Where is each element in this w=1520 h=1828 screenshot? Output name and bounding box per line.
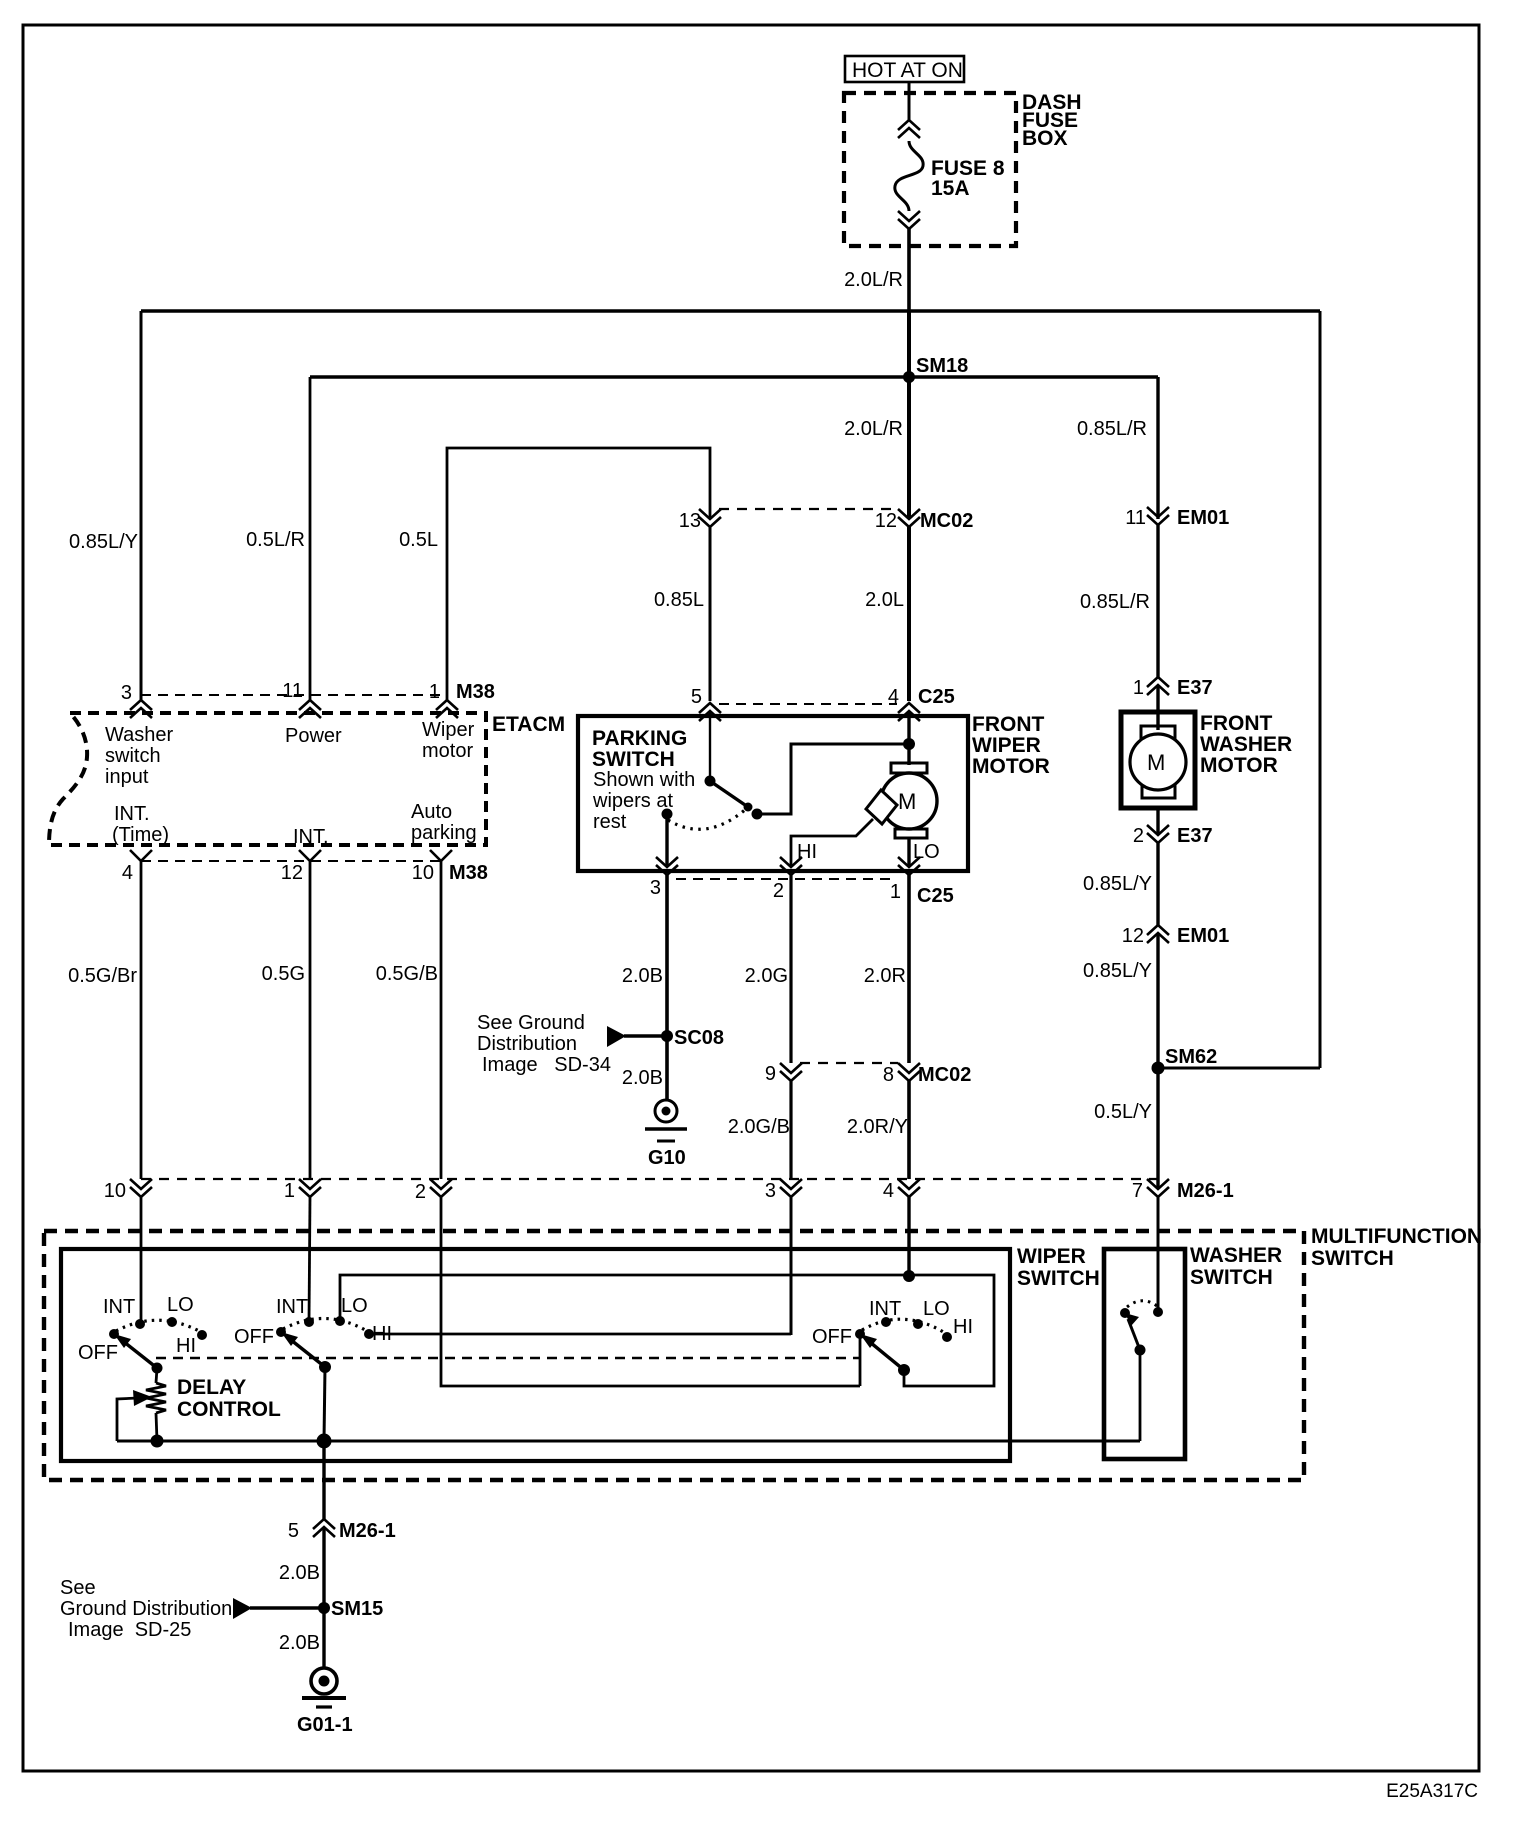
wire: 2.0G/B to switch2 HI rail [790,1197,793,1335]
wire: 2.0L to wiper motor [907,527,911,701]
node SM15 [233,1598,383,1620]
wire: parking rest contact to pin3 [665,814,668,867]
wire: 0.5L/Y into washer switch [1157,1197,1160,1312]
svg-text:0.5L/R: 0.5L/R [246,529,305,551]
svg-text:3: 3 [650,877,661,899]
see ground distribution SD-34 note [477,1012,611,1076]
svg-text:BOX: BOX [1022,127,1068,150]
svg-text:2.0B: 2.0B [279,1632,320,1654]
svg-text:INT: INT [276,1296,308,1318]
parking switch label [592,727,695,833]
svg-text:2: 2 [415,1181,426,1203]
connector M38 pin 10 [412,850,488,884]
ground G01-1 [297,1668,353,1736]
svg-text:rest: rest [593,811,627,833]
wire: HI rail [369,1333,791,1336]
wire: switch2 common to ground bus [324,1367,325,1441]
ETACM pin name: Auto parking [411,801,477,844]
svg-text:2: 2 [1133,825,1144,847]
svg-text:WIPER: WIPER [972,734,1041,757]
ETACM pin name: INT. (Time) [112,803,169,846]
svg-text:Image SD-25: Image SD-25 [68,1619,191,1641]
delay control resistor R [146,1368,166,1441]
front washer motor feed: connector E37 pin 1 [1133,677,1213,699]
wire: 0.5G/Br INT(Time) [140,861,143,1179]
wire: 2.0B to ground [322,1608,325,1668]
svg-text:2.0G: 2.0G [745,965,788,987]
svg-text:SM62: SM62 [1165,1046,1217,1068]
connector C25 pin 4 [888,686,955,721]
svg-text:E37: E37 [1177,825,1213,847]
wire: 2.0B to SM15 [322,1527,325,1608]
motor HI brush [866,790,897,824]
svg-text:Washer: Washer [105,724,174,746]
wire: 0.85L to parking switch [709,527,712,701]
connector C25 top dashed link [719,703,897,705]
wire: pin4 into motor [907,711,910,765]
washer switch blade [1125,1313,1146,1356]
parking switch travel arc (dotted) [668,809,746,829]
wire: ground lead out of multifunction switch [322,1441,325,1519]
svg-text:input: input [105,766,149,788]
svg-text:Shown with: Shown with [593,769,695,791]
connector M26-1 pin 3 [765,1179,802,1202]
wire: ground bus [117,1440,1140,1443]
switch3 travel arc (dotted) [862,1319,945,1333]
svg-text:13: 13 [679,510,701,532]
svg-text:2.0B: 2.0B [279,1562,320,1584]
svg-text:3: 3 [765,1180,776,1202]
svg-text:M: M [1147,750,1165,775]
svg-text:5: 5 [691,686,702,708]
svg-text:G01-1: G01-1 [297,1714,353,1736]
node: resistor to bus [151,1435,164,1448]
connector MC02 pin 12 [875,509,974,532]
switch2 contacts [276,1316,374,1339]
svg-text:LO: LO [167,1294,194,1316]
wire: HI brush to pin2 [791,819,873,867]
svg-text:C25: C25 [918,686,955,708]
svg-text:8: 8 [883,1064,894,1086]
wire: washer motor out [1156,808,1159,835]
svg-text:SWITCH: SWITCH [1311,1247,1394,1270]
motor M brush block top [891,763,927,773]
svg-text:0.5L: 0.5L [399,529,438,551]
motor M circle (front washer motor) [1130,734,1186,790]
multifunction switch label [1311,1225,1482,1270]
svg-text:MULTIFUNCTION: MULTIFUNCTION [1311,1225,1482,1248]
ETACM box (dashed, torn left edge) [49,713,486,845]
front wiper motor label [972,713,1050,778]
svg-text:4: 4 [883,1180,894,1202]
wire: right 0.85L/R branch down to SM62 [1319,311,1322,1068]
svg-text:parking: parking [411,822,477,844]
wire: 2.0R/Y down [907,1081,911,1179]
mechanical link (dashed) [156,1357,860,1359]
wire: 0.85L/Y to SM62 [1156,933,1159,1189]
connector M38 pin 4 [122,850,152,884]
svg-text:ETACM: ETACM [492,713,565,736]
dash fuse box (dashed) [844,93,1016,246]
svg-text:4: 4 [888,686,899,708]
svg-text:switch: switch [105,745,161,767]
svg-text:Power: Power [285,725,342,747]
multifunction switch box (dashed) [44,1231,1304,1480]
svg-text:SM18: SM18 [916,355,968,377]
switch2 blade [281,1332,331,1373]
switch1 contacts [109,1317,207,1340]
wire: 0.5L/R branch vertical [309,377,312,701]
svg-text:HI: HI [176,1335,196,1357]
svg-text:M: M [898,789,916,814]
svg-text:SWITCH: SWITCH [1017,1267,1100,1290]
wiper switch label [1017,1245,1100,1290]
motor M circle (front wiper motor) [881,773,937,829]
svg-text:MC02: MC02 [918,1064,971,1086]
svg-text:(Time): (Time) [112,824,169,846]
connector M38 pin 3 [121,682,152,718]
connector E37 pin 2 [1133,825,1213,847]
svg-text:See Ground: See Ground [477,1012,585,1034]
svg-text:CONTROL: CONTROL [177,1398,281,1421]
svg-text:2.0L: 2.0L [865,589,904,611]
connector C25 pin 5 [691,686,721,721]
connector C25 pin 3 [650,857,678,899]
svg-text:SM15: SM15 [331,1598,383,1620]
wire: 2.0R/Y to LO rail [907,1197,910,1276]
svg-text:G10: G10 [648,1147,686,1169]
wire: INT(Time) into switch1 [140,1197,143,1324]
svg-text:7: 7 [1132,1180,1143,1202]
connector MC02 pin 13 [679,509,721,532]
svg-text:2.0R: 2.0R [864,965,906,987]
svg-text:MC02: MC02 [920,510,973,532]
wiper switch box [61,1249,1010,1461]
connector M26-1 pin 5 [288,1519,396,1542]
connector MC02 pin 9 [765,1063,802,1085]
connector MC02 pin 8 [883,1063,971,1086]
wire: washer switch common to ground bus [1139,1350,1142,1441]
switch1 position labels [78,1294,196,1364]
svg-text:SC08: SC08 [674,1027,724,1049]
washer switch travel arc (dotted) [1127,1301,1157,1307]
svg-text:SWITCH: SWITCH [1190,1266,1273,1289]
delay control wiper arrow [117,1390,152,1441]
svg-text:M38: M38 [456,681,495,703]
node SM18 [903,355,968,383]
svg-text:INT.: INT. [114,803,150,825]
svg-text:Distribution: Distribution [477,1033,577,1055]
svg-text:9: 9 [765,1063,776,1085]
node: junction on pin4 feed [903,738,915,750]
switch2 position labels [234,1295,392,1348]
svg-text:0.85L/Y: 0.85L/Y [69,531,138,553]
svg-text:Wiper: Wiper [422,719,475,741]
svg-text:wipers at: wipers at [592,790,673,812]
parking switch contact (pin5 side) [705,776,716,787]
connector M26-1 pin 4 [883,1179,920,1202]
wire: parking common to motor feed [757,744,909,814]
svg-text:LO: LO [341,1295,368,1317]
front washer motor label [1200,712,1292,777]
connector M26-1 pin 1 [284,1179,321,1202]
svg-text:0.5G: 0.5G [262,963,305,985]
node: LO rail junction [903,1270,915,1282]
connector M26-1 pin 7 [1132,1179,1234,1202]
svg-text:Ground Distribution: Ground Distribution [60,1598,232,1620]
svg-text:1: 1 [429,681,440,703]
ETACM pin name: Washer switch input [105,724,174,788]
svg-text:INT.: INT. [293,826,329,848]
svg-text:INT: INT [869,1298,901,1320]
wire: LO to pin1 [907,838,910,867]
washer switch contacts [1120,1307,1163,1318]
node SM62 [1152,1046,1218,1075]
svg-text:FRONT: FRONT [1200,712,1272,735]
svg-text:MOTOR: MOTOR [1200,754,1278,777]
see ground distribution SD-25 note [60,1577,232,1641]
wire: 0.85L/Y [1156,843,1159,925]
parking switch common contact [752,809,763,820]
svg-text:2.0G/B: 2.0G/B [728,1116,790,1138]
connector MC02 lower dashed link [800,1062,898,1064]
svg-text:C25: C25 [917,885,954,907]
svg-text:0.85L/R: 0.85L/R [1077,418,1147,440]
wire: 0.5G/B auto parking [440,861,443,1179]
connector C25 pin 1 [890,857,954,907]
washer switch box [1104,1249,1185,1459]
svg-text:0.85L/Y: 0.85L/Y [1083,960,1152,982]
svg-text:2.0R/Y: 2.0R/Y [847,1116,908,1138]
svg-text:WASHER: WASHER [1190,1244,1282,1267]
connector M38 pin 12 [281,850,321,884]
switch3 position labels [812,1298,973,1348]
svg-text:0.85L/R: 0.85L/R [1080,591,1150,613]
connector M26-1 pin 2 [415,1179,452,1203]
connector M38 bottom dashed link [141,860,441,862]
HOT AT ON box [845,56,964,82]
wire: INT into switch2 [309,1197,310,1322]
wire: auto parking to switch3 OFF [441,1197,860,1386]
svg-text:0.5G/B: 0.5G/B [376,963,438,985]
svg-text:OFF: OFF [78,1342,118,1364]
node SC08 [607,1026,724,1049]
connector C25 pin 2 [773,857,802,902]
svg-text:2: 2 [773,880,784,902]
parking switch rest contact [662,809,673,820]
svg-text:INT: INT [103,1296,135,1318]
wire: 2.0L/R down from fuse to SM18 [907,311,911,519]
svg-text:See: See [60,1577,96,1599]
svg-text:HI: HI [953,1316,973,1338]
washer motor brush block bottom [1142,785,1175,798]
svg-text:EM01: EM01 [1177,925,1229,947]
svg-text:2.0B: 2.0B [622,965,663,987]
svg-text:OFF: OFF [234,1326,274,1348]
switch3 blade [860,1334,910,1376]
svg-text:EM01: EM01 [1177,507,1229,529]
svg-text:WASHER: WASHER [1200,733,1292,756]
svg-text:0.5G/Br: 0.5G/Br [68,965,137,987]
svg-text:DELAY: DELAY [177,1376,246,1399]
wire: 0.85L/R washer feed vertical [1156,377,1159,519]
svg-text:E37: E37 [1177,677,1213,699]
switch3 contacts [855,1317,952,1342]
wire: 2.0G/B down [789,1081,792,1179]
wire: switch3 OFF contact drop [859,1334,862,1386]
svg-text:12: 12 [875,510,897,532]
front wiper motor / parking switch box [578,716,968,871]
svg-text:2.0L/R: 2.0L/R [844,269,903,291]
wire: LO rail loop to switch3 common [340,1275,994,1386]
wire: SM18 bus [310,375,1158,379]
svg-text:4: 4 [122,862,133,884]
wire: E37 pin1 into washer motor [1156,685,1159,730]
svg-text:12: 12 [1122,925,1144,947]
front washer motor box [1121,712,1195,808]
svg-text:11: 11 [282,680,303,702]
svg-text:12: 12 [281,862,303,884]
connector EM01 pin 12 [1122,925,1230,947]
dash fuse box label [1022,91,1082,150]
svg-text:5: 5 [288,1520,299,1542]
svg-text:FRONT: FRONT [972,713,1044,736]
connector EM01 pin 11 [1125,507,1229,529]
svg-text:HOT AT ON: HOT AT ON [852,59,963,82]
fuse F8 15A [895,82,1005,311]
connector MC02 dashed link [719,508,898,510]
connector M38 pin 1 [429,681,495,718]
connector M26-1 pin 10 [104,1179,152,1202]
connector M38 top dashed link [141,694,447,696]
svg-text:M26-1: M26-1 [339,1520,396,1542]
svg-text:WIPER: WIPER [1017,1245,1086,1268]
wire: 2.0R from pin1 [907,875,911,1063]
svg-text:3: 3 [121,682,132,704]
svg-text:0.85L/Y: 0.85L/Y [1083,873,1152,895]
svg-text:1: 1 [1133,677,1144,699]
wire: 2.0G from pin2 [789,875,792,1063]
wire: 0.85L/Y branch left vertical [140,311,143,701]
svg-text:motor: motor [422,740,473,762]
svg-text:1: 1 [890,881,901,903]
washer switch label [1190,1244,1282,1289]
connector M38 pin 11 [282,680,321,718]
delay control label [177,1376,281,1421]
svg-text:Image SD-34: Image SD-34 [482,1054,611,1076]
ETACM pin name: Wiper motor [422,719,475,762]
svg-text:11: 11 [1125,507,1146,529]
svg-text:MOTOR: MOTOR [972,755,1050,778]
svg-text:E25A317C: E25A317C [1386,1781,1478,1802]
svg-text:10: 10 [412,862,434,884]
switch2 travel arc (dotted) [283,1318,367,1331]
svg-text:10: 10 [104,1180,126,1202]
parking switch blade [710,781,753,812]
wire: SM62 link to right branch [1158,1067,1320,1070]
svg-text:PARKING: PARKING [592,727,687,750]
svg-text:1: 1 [284,1180,295,1202]
motor M brush block bottom [895,829,927,838]
wire: top feed bus [141,309,1320,313]
svg-text:2.0B: 2.0B [622,1067,663,1089]
svg-text:M38: M38 [449,862,488,884]
wire: 2.0B from parking pin3 [665,875,669,1100]
ground G10 [645,1100,687,1169]
svg-text:2.0L/R: 2.0L/R [844,418,903,440]
wire: 0.5L loop [447,448,710,701]
switch1 blade [114,1334,163,1374]
svg-text:0.5L/Y: 0.5L/Y [1094,1101,1152,1123]
svg-text:LO: LO [923,1298,950,1320]
svg-text:0.85L: 0.85L [654,589,704,611]
washer motor brush block top [1141,726,1175,739]
switch1 travel arc (dotted) [116,1320,201,1332]
wire: pin5 stub to parking contact [709,711,711,781]
connector M26-1 row dashed link [141,1178,1158,1180]
connector C25 bottom dashed link [676,878,897,880]
svg-text:M26-1: M26-1 [1177,1180,1234,1202]
svg-text:15A: 15A [931,177,970,200]
wire: 0.85L/R to washer motor [1156,525,1159,677]
svg-text:SWITCH: SWITCH [592,748,675,771]
svg-text:OFF: OFF [812,1326,852,1348]
node: switch2 common to bus [317,1434,332,1449]
wire: 0.5G INT [309,861,312,1179]
svg-text:Auto: Auto [411,801,452,823]
